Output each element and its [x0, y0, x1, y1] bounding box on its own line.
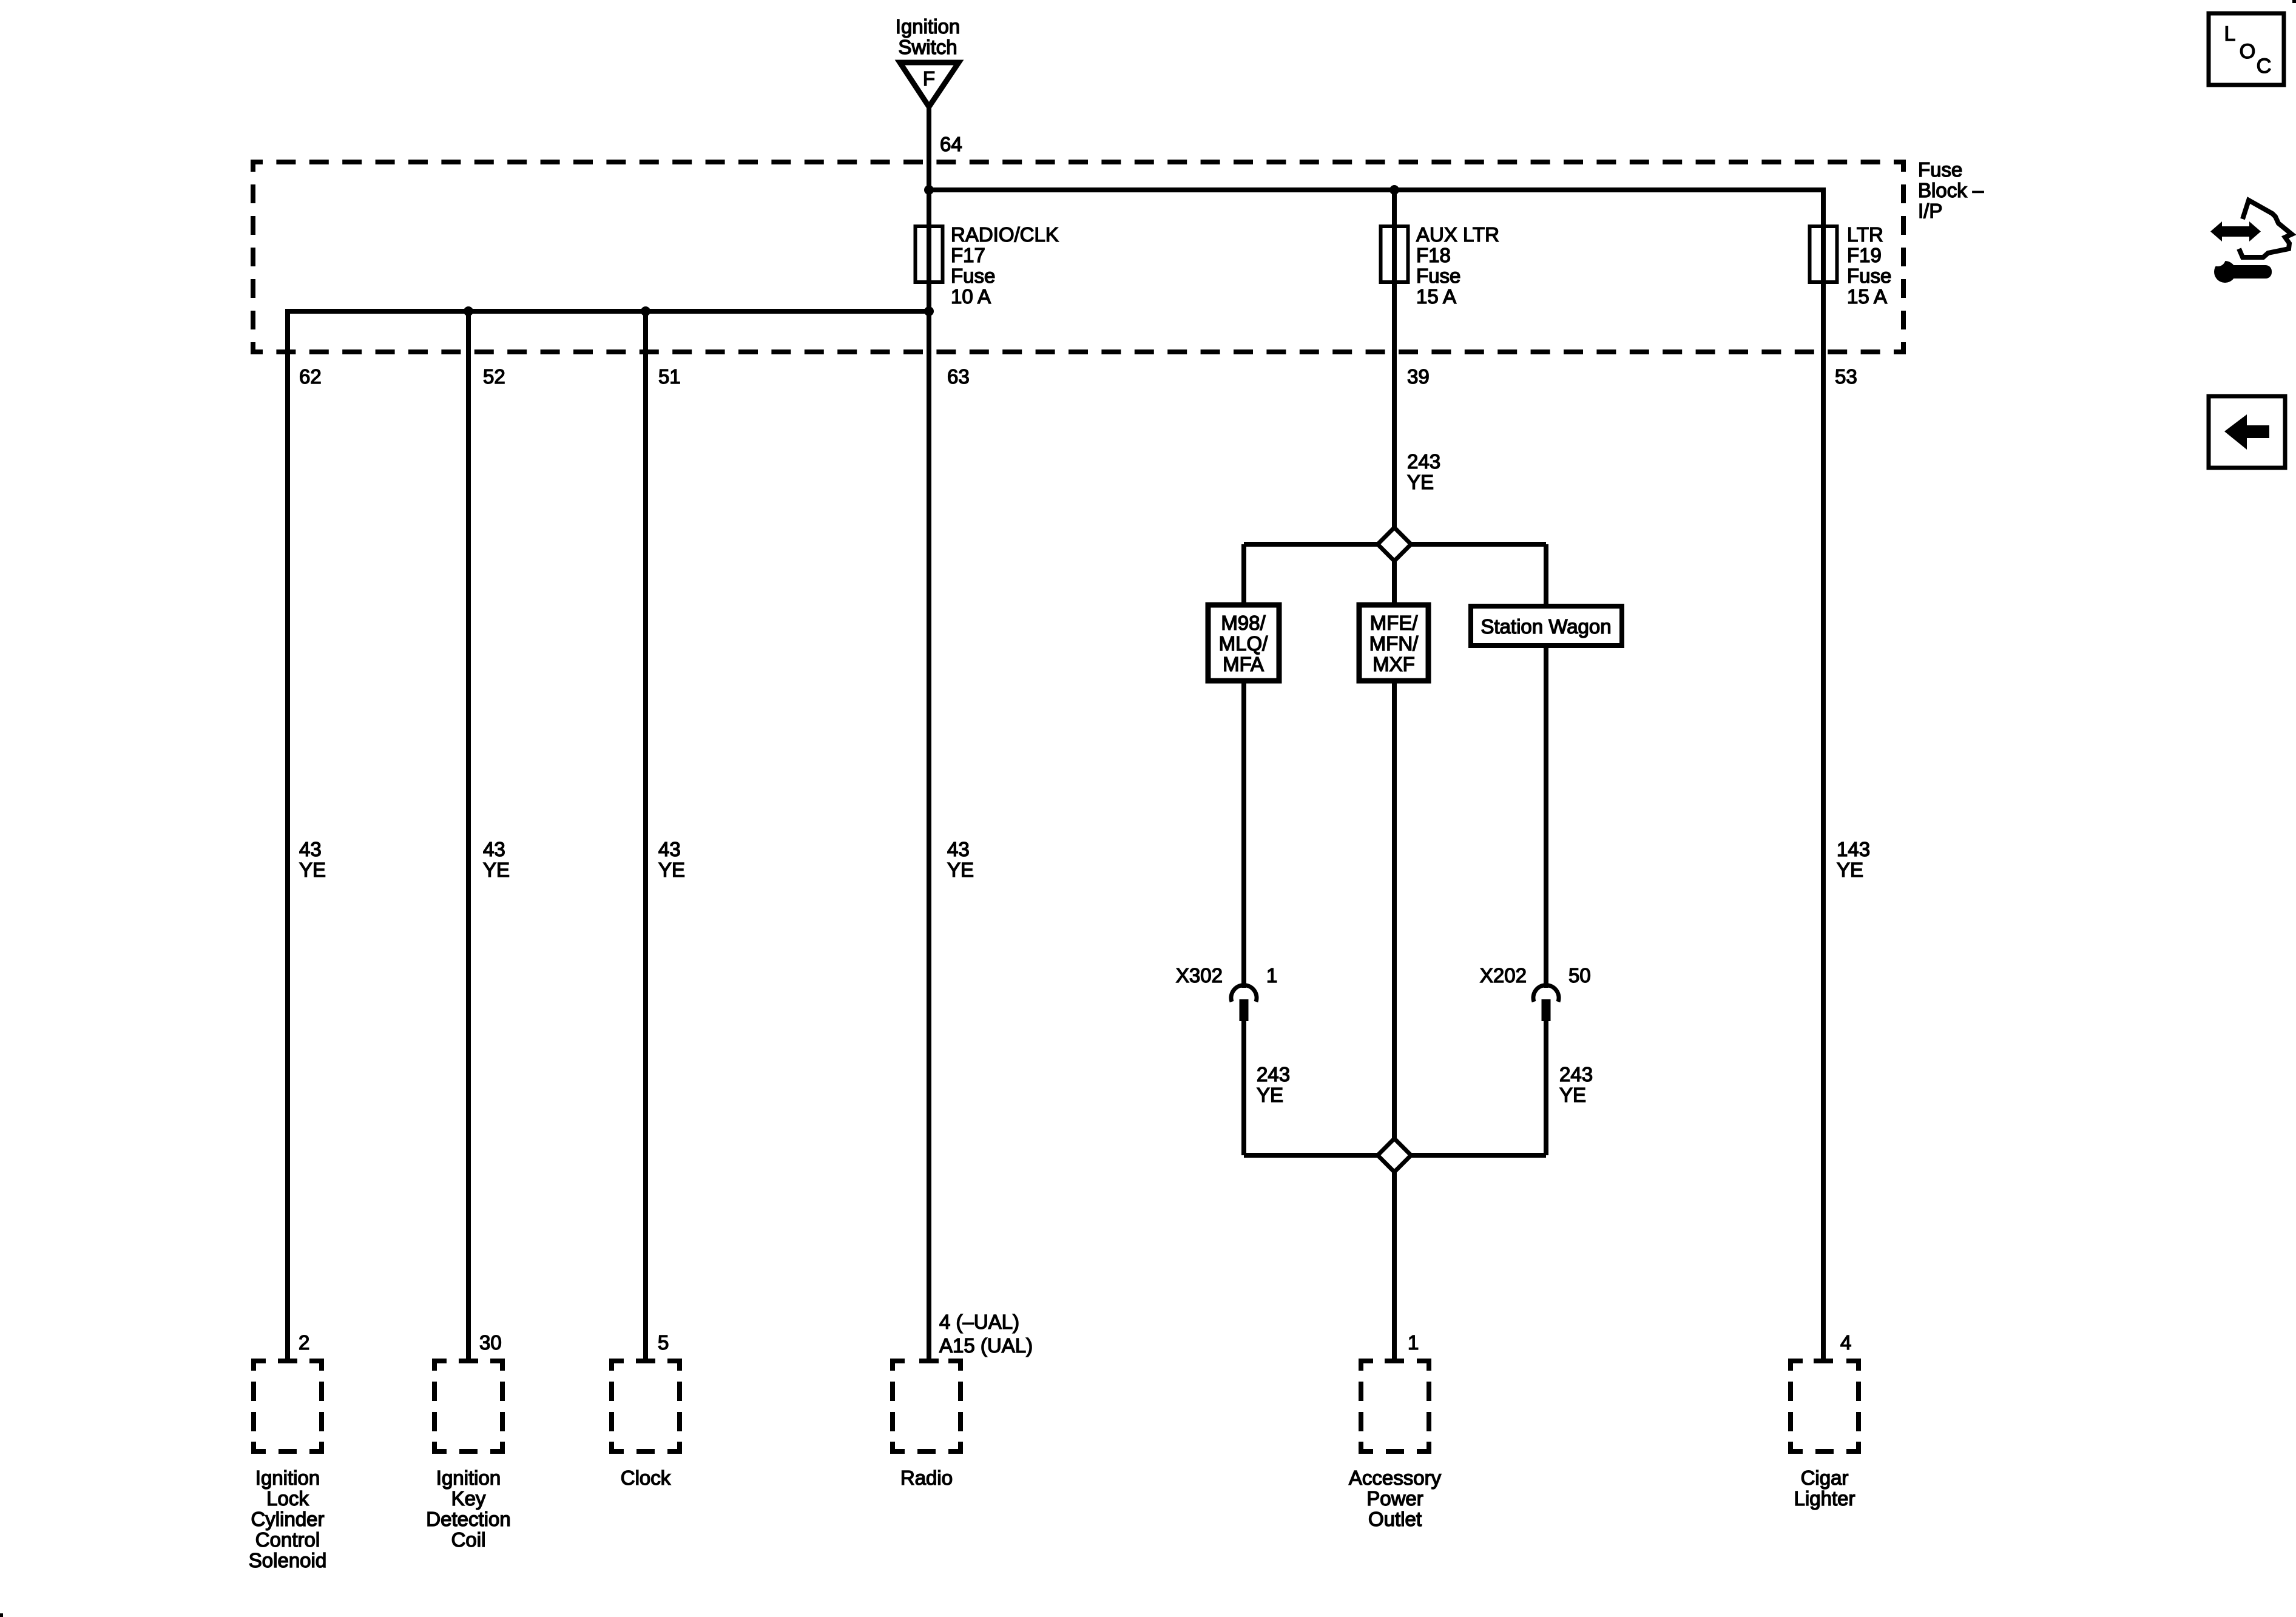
svg-text:M98/: M98/ — [1221, 612, 1266, 634]
svg-text:Solenoid: Solenoid — [249, 1549, 326, 1571]
svg-text:43: 43 — [483, 838, 505, 860]
svg-text:53: 53 — [1835, 365, 1857, 388]
svg-text:243: 243 — [1407, 450, 1440, 473]
svg-text:MXF: MXF — [1373, 653, 1415, 675]
svg-text:F19: F19 — [1847, 244, 1882, 266]
svg-text:YE: YE — [1559, 1084, 1586, 1106]
svg-text:YE: YE — [947, 859, 974, 881]
svg-text:Block –: Block – — [1918, 179, 1984, 201]
svg-text:1: 1 — [1266, 964, 1277, 987]
svg-text:I/P: I/P — [1918, 200, 1942, 222]
svg-text:A15 (UAL): A15 (UAL) — [939, 1334, 1033, 1357]
svg-text:43: 43 — [658, 838, 681, 860]
svg-text:Lighter: Lighter — [1794, 1487, 1855, 1510]
svg-text:143: 143 — [1837, 838, 1870, 860]
svg-text:F18: F18 — [1416, 244, 1451, 266]
svg-text:MFN/: MFN/ — [1369, 632, 1419, 655]
svg-text:L: L — [2224, 22, 2236, 46]
svg-text:F17: F17 — [951, 244, 985, 266]
svg-text:Lock: Lock — [266, 1487, 309, 1510]
svg-text:Outlet: Outlet — [1368, 1508, 1422, 1530]
svg-text:Fuse: Fuse — [1847, 265, 1891, 287]
svg-text:62: 62 — [299, 365, 322, 388]
svg-text:30: 30 — [479, 1331, 502, 1354]
svg-text:LTR: LTR — [1847, 223, 1883, 246]
svg-text:Station Wagon: Station Wagon — [1481, 615, 1611, 638]
svg-text:39: 39 — [1407, 365, 1430, 388]
svg-text:43: 43 — [947, 838, 970, 860]
svg-text:O: O — [2240, 40, 2255, 63]
svg-text:YE: YE — [1837, 859, 1863, 881]
svg-text:5: 5 — [658, 1331, 669, 1354]
svg-text:C: C — [2257, 55, 2272, 78]
svg-text:Ignition: Ignition — [255, 1467, 320, 1489]
svg-text:43: 43 — [299, 838, 322, 860]
svg-text:10 A: 10 A — [951, 285, 991, 308]
svg-text:RADIO/CLK: RADIO/CLK — [951, 223, 1059, 246]
svg-text:243: 243 — [1559, 1063, 1593, 1085]
svg-text:Detection: Detection — [426, 1508, 510, 1530]
svg-text:X202: X202 — [1480, 964, 1527, 987]
svg-text:Accessory: Accessory — [1349, 1467, 1442, 1489]
svg-text:Control: Control — [255, 1528, 320, 1551]
svg-text:Fuse: Fuse — [1416, 265, 1460, 287]
svg-text:Coil: Coil — [451, 1528, 486, 1551]
svg-text:64: 64 — [940, 133, 962, 155]
svg-text:Fuse: Fuse — [1918, 158, 1962, 181]
svg-text:Power: Power — [1366, 1487, 1423, 1510]
svg-text:Key: Key — [451, 1487, 486, 1510]
svg-text:MFE/: MFE/ — [1370, 612, 1419, 634]
svg-text:15 A: 15 A — [1847, 285, 1887, 308]
svg-text:4: 4 — [1840, 1331, 1851, 1354]
svg-text:4 (–UAL): 4 (–UAL) — [939, 1311, 1019, 1333]
svg-text:Ignition: Ignition — [436, 1467, 501, 1489]
svg-text:15 A: 15 A — [1416, 285, 1456, 308]
svg-text:Cigar: Cigar — [1801, 1467, 1849, 1489]
svg-text:MLQ/: MLQ/ — [1219, 632, 1269, 655]
svg-text:Cylinder: Cylinder — [251, 1508, 324, 1530]
svg-text:1: 1 — [1408, 1331, 1419, 1354]
svg-text:Fuse: Fuse — [951, 265, 995, 287]
svg-text:243: 243 — [1257, 1063, 1290, 1085]
svg-text:YE: YE — [1407, 471, 1434, 493]
svg-text:YE: YE — [658, 859, 685, 881]
svg-text:X302: X302 — [1176, 964, 1223, 987]
svg-text:51: 51 — [658, 365, 681, 388]
svg-text:F: F — [923, 67, 935, 90]
svg-text:52: 52 — [483, 365, 505, 388]
svg-text:Switch: Switch — [898, 36, 957, 58]
svg-text:YE: YE — [483, 859, 510, 881]
svg-text:2: 2 — [299, 1331, 309, 1354]
svg-text:MFA: MFA — [1223, 653, 1264, 675]
svg-text:YE: YE — [1257, 1084, 1283, 1106]
svg-text:50: 50 — [1568, 964, 1591, 987]
svg-text:Ignition: Ignition — [896, 15, 960, 38]
svg-text:AUX LTR: AUX LTR — [1416, 223, 1499, 246]
svg-text:Radio: Radio — [900, 1467, 953, 1489]
svg-text:63: 63 — [947, 365, 970, 388]
svg-text:YE: YE — [299, 859, 326, 881]
svg-text:Clock: Clock — [621, 1467, 671, 1489]
